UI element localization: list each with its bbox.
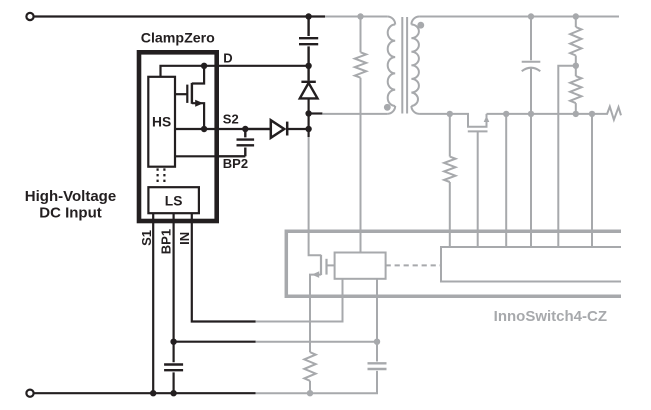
svg-text:LS: LS (165, 193, 183, 208)
svg-text:BP1: BP1 (158, 229, 173, 254)
wire output bottom rail (487, 113, 593, 115)
transformer T1 core (402, 17, 407, 114)
wire BP2 return (217, 155, 246, 157)
node D junction (inside ClampZero) (201, 63, 207, 69)
svg-text:ClampZero: ClampZero (141, 31, 215, 47)
node feedback junction (573, 62, 579, 68)
capacitor BP1 (164, 365, 183, 371)
wire BPP cap to return rail (256, 371, 378, 393)
capacitor C1 clamp (top) (299, 17, 318, 81)
svg-text:InnoSwitch4-CZ: InnoSwitch4-CZ (494, 308, 607, 325)
svg-text:S1: S1 (139, 230, 154, 246)
block HS (high-side controller) (148, 77, 175, 167)
transistor Q3 source arrow (312, 271, 319, 278)
ClampZero IC outline (139, 52, 217, 221)
node HV rail sense-resistor junction (357, 13, 363, 19)
transformer T1 primary polarity dot (384, 104, 391, 111)
wire pin IN down and right (black part) (192, 213, 256, 321)
resistor R5 output (horizontal, cut at edge) (592, 107, 621, 120)
wire HS top to node D (161, 66, 309, 77)
wire feedback to IC (558, 66, 576, 247)
transistor Q1 clamp MOSFET drain lead (192, 66, 204, 84)
capacitor C3 BPP (368, 363, 387, 369)
node S1 on return rail (150, 390, 156, 396)
transistor Q2 SR FET arrow (484, 116, 490, 122)
wire BP1 to BPP (gray part) (256, 341, 377, 343)
resistor R3 divider upper (575, 17, 577, 28)
node output cap top junction (528, 13, 534, 19)
block LS (low-side controller) (148, 187, 199, 213)
wire ground sense into IC (591, 114, 593, 247)
node BP1 cap on return rail (170, 390, 176, 396)
wire secondary bottom to SR fet (419, 114, 486, 127)
wire switching node to primary winding (322, 113, 387, 115)
transistor Q3 source lead (310, 275, 321, 353)
transistor Q3 primary MOSFET channel (320, 255, 322, 275)
wire HS to S2 pin (175, 128, 271, 130)
transistor Q2 SR FET gate (468, 130, 488, 132)
wire BP1 to InnoSwitch BPP (black part) (174, 341, 256, 343)
node return sense junction (503, 111, 509, 117)
node HV rail / clamp cap junction (305, 13, 311, 19)
svg-text:High-Voltage: High-Voltage (25, 188, 116, 205)
wire Q1 gate to HS (175, 93, 187, 95)
resistor R2 (secondary sense) (449, 114, 451, 157)
svg-text:D: D (223, 51, 232, 66)
resistor R1 line sense (HV to controller) (360, 17, 362, 53)
node D external junction (305, 63, 311, 69)
resistor R6 source sense (304, 352, 315, 381)
wire drain into IC (gray) (309, 137, 321, 255)
node divider top junction (573, 13, 579, 19)
diode D1 clamp (pointing up) (301, 81, 315, 83)
input terminal + (top left) (26, 13, 33, 20)
capacitor C2 output (polarized) (522, 17, 541, 62)
node source resistor on return rail (307, 390, 313, 396)
wire output top rail (419, 16, 619, 18)
wire return bottom rail (black) (34, 392, 256, 394)
wire HS to BP2 pin (175, 155, 245, 157)
transistor Q1 source arrow (195, 100, 203, 107)
InnoSwitch4-CZ IC outline (open right) (286, 231, 621, 296)
node S2 external junction (242, 126, 248, 132)
wire HV+ top rail (black) (34, 15, 325, 17)
transistor Q1 gate bar (186, 85, 188, 103)
input terminal - (bottom left) (26, 390, 33, 397)
node S2 diode junction (305, 126, 311, 132)
svg-text:S2: S2 (223, 112, 239, 127)
node secondary return junction (447, 111, 453, 117)
wire vout sense into IC (530, 114, 532, 247)
block secondary controller (open right) (441, 247, 621, 282)
wire pin S1 down to return rail (152, 213, 154, 393)
wire pin BP1 down (173, 213, 175, 393)
wire BPP pin down (376, 279, 378, 362)
svg-text:DC Input: DC Input (39, 204, 101, 221)
wire HV rail (gray part) (325, 16, 387, 18)
wire switching node stub (black) (309, 112, 323, 114)
node BP1 tap junction (170, 339, 176, 345)
node S2 junction (inside ClampZero) (201, 126, 207, 132)
node BPP cap tap junction (374, 339, 380, 345)
wire IN sense pin (gray part) (256, 279, 343, 322)
transformer T1 secondary winding (411, 17, 419, 114)
wire clamp column link (308, 114, 310, 138)
node output cap bottom junction (528, 111, 534, 117)
wire dashed link to secondary controller (386, 264, 441, 266)
transistor Q3 gate bar (325, 259, 327, 275)
diode D2 (S2 blocking) (245, 128, 270, 130)
node switching node junction (to primary) (305, 110, 311, 116)
transistor Q1 source lead (192, 103, 204, 129)
transformer T1 secondary polarity dot (417, 22, 424, 29)
block primary controller (335, 253, 386, 279)
svg-text:HS: HS (152, 114, 171, 129)
wire return sense into IC (505, 114, 507, 247)
wire HS-LS dotted link (158, 168, 165, 185)
transistor Q1 channel bar (191, 83, 193, 104)
svg-text:IN: IN (177, 232, 192, 245)
node divider bottom junction (573, 111, 579, 117)
capacitor BP2 (S2 to BP2) (237, 129, 255, 156)
resistor R4 divider lower (575, 66, 577, 76)
node ground sense junction (589, 111, 595, 117)
svg-text:BP2: BP2 (223, 156, 248, 171)
transformer T1 primary winding (387, 17, 395, 114)
wire Q3 gate to controller (327, 264, 335, 266)
